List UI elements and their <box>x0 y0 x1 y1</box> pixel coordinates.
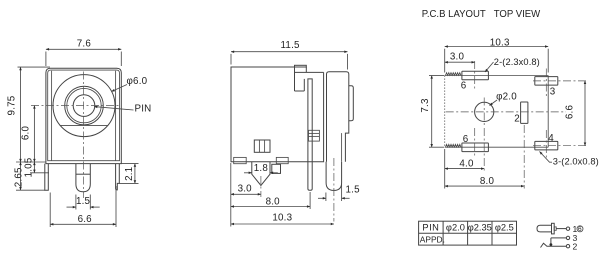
svg-text:φ2.0: φ2.0 <box>496 91 517 102</box>
svg-text:φ2.35: φ2.35 <box>468 223 492 233</box>
front view body outer shell <box>46 68 121 163</box>
plug barrel symbol <box>537 223 566 234</box>
dimension 1.05 <box>24 157 50 177</box>
svg-text:11.5: 11.5 <box>281 40 300 51</box>
dimension 7.3 pcb <box>420 76 444 148</box>
side view bottom inner steps <box>234 157 288 163</box>
side view body <box>231 65 324 161</box>
dimension 2.65 bottom-left <box>13 162 46 190</box>
dimension 1.5 front pin <box>67 195 100 210</box>
svg-text:6.0: 6.0 <box>21 126 32 141</box>
front view right foot <box>116 164 120 190</box>
front view counterbore inner edge <box>67 88 101 122</box>
svg-text:7.6: 7.6 <box>77 39 92 50</box>
label 3-(2.0x0.8) with leader <box>540 152 599 167</box>
dimension 10.3 pcb <box>445 37 549 72</box>
label φ6.0 with leader <box>112 76 148 92</box>
svg-text:3: 3 <box>550 87 556 98</box>
contact circle pin 1 <box>566 227 569 230</box>
side view front pin (triangle) <box>252 162 270 186</box>
svg-text:APPD.: APPD. <box>420 235 445 245</box>
svg-text:8.0: 8.0 <box>266 197 281 208</box>
side view detail window <box>254 140 270 152</box>
label PIN with leader <box>94 104 151 115</box>
spring lever pin 2 <box>541 243 567 247</box>
svg-text:8.0: 8.0 <box>480 176 495 187</box>
dimension 8.0 side <box>231 192 310 209</box>
dimension 9.75 left <box>7 67 50 162</box>
svg-text:4: 4 <box>548 133 554 144</box>
side view pin crimp block <box>309 130 320 141</box>
svg-text:3.0: 3.0 <box>238 184 253 195</box>
dimension 6.0 left <box>21 106 35 163</box>
svg-text:2.1: 2.1 <box>124 167 135 181</box>
front view pin hole circle <box>73 95 95 117</box>
front view middle circle <box>65 86 104 125</box>
svg-text:10.3: 10.3 <box>272 213 292 224</box>
svg-text:9.75: 9.75 <box>7 95 18 115</box>
front view chord line <box>60 124 108 126</box>
front view barrel circle φ6.0 <box>53 75 115 137</box>
pcb centerlines <box>446 61 588 158</box>
dimension 1.8 <box>244 163 278 174</box>
svg-text:φ2.0: φ2.0 <box>446 223 465 233</box>
svg-text:1.05: 1.05 <box>24 157 35 177</box>
dimension 8.0 pcb <box>445 125 525 189</box>
side view bottom notch block <box>272 164 281 173</box>
dimension 6.6 bottom <box>50 186 116 227</box>
side view rear pin <box>326 162 342 191</box>
center hole φ2.0 <box>475 102 494 121</box>
svg-text:P.C.B LAYOUT TOP VIEW: P.C.B LAYOUT TOP VIEW <box>422 9 541 20</box>
front view vertical centerline <box>83 72 85 199</box>
side view centerline rear pin <box>333 158 335 222</box>
pad 6 bottom-left <box>462 134 489 151</box>
svg-text:2: 2 <box>573 241 578 251</box>
svg-text:φ6.0: φ6.0 <box>127 76 148 87</box>
dimension 4.0 pcb <box>445 128 485 171</box>
svg-text:φ2.5: φ2.5 <box>495 223 514 233</box>
svg-text:PIN: PIN <box>422 223 439 233</box>
switch arm pin 3 <box>550 238 567 246</box>
svg-text:4.0: 4.0 <box>459 158 474 169</box>
dimension 7.6 top <box>46 39 121 66</box>
contact circle pin 2 <box>566 245 569 248</box>
dimension 2.1 right <box>119 164 138 184</box>
svg-text:6: 6 <box>578 226 582 233</box>
front view center pin <box>76 164 90 192</box>
svg-text:6.6: 6.6 <box>565 105 576 120</box>
dimension 10.3 side <box>231 213 334 225</box>
svg-text:1.8: 1.8 <box>254 163 269 174</box>
side view middle pin lower part <box>308 162 312 191</box>
svg-text:3.0: 3.0 <box>450 51 465 62</box>
dimension 1.5 rear pin <box>318 184 360 201</box>
front view left foot <box>45 164 49 191</box>
side view middle pin slot <box>308 79 312 162</box>
dimension 11.5 top <box>231 40 348 69</box>
pad 4 bottom-right <box>535 133 558 150</box>
dimension 3.0 side <box>231 163 261 227</box>
dimension 3.0 pcb <box>445 51 475 62</box>
svg-text:1.5: 1.5 <box>76 196 91 207</box>
svg-text:2: 2 <box>514 113 520 124</box>
contact circle pin 3 <box>566 236 569 239</box>
pad 3 top-right <box>535 77 558 98</box>
svg-text:3-(2.0x0.8): 3-(2.0x0.8) <box>553 157 599 167</box>
label 4(6) <box>573 224 584 234</box>
svg-text:6: 6 <box>463 134 469 145</box>
svg-text:6: 6 <box>461 81 467 92</box>
label 2-(2.3x0.8) with leader <box>485 57 540 72</box>
dimension 6.6 pcb <box>565 81 586 146</box>
side view mounting plate <box>327 72 354 162</box>
svg-text:6.6: 6.6 <box>78 214 93 225</box>
front view cavity walls <box>52 71 116 161</box>
pcb outline <box>445 73 549 147</box>
pad 2 center <box>514 102 528 124</box>
table text row PIN <box>422 223 513 233</box>
table grid <box>419 221 517 245</box>
pad 6 top-left <box>461 71 489 92</box>
svg-text:2-(2.3x0.8): 2-(2.3x0.8) <box>494 57 540 67</box>
svg-text:1.5: 1.5 <box>346 185 361 196</box>
svg-text:PIN: PIN <box>135 104 152 115</box>
front view horizontal centerline <box>31 105 120 107</box>
svg-text:7.3: 7.3 <box>420 98 431 113</box>
label φ2.0 with leader <box>490 91 518 105</box>
